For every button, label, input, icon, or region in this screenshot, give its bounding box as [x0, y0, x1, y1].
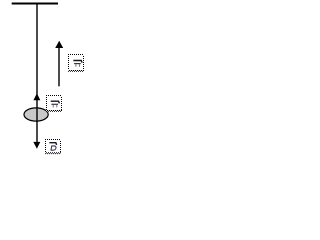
label icon 3 (gravity label placeholder box) — [45, 139, 61, 154]
glyph: te-like letter — [51, 103, 58, 105]
glyph: te-like letter — [74, 63, 81, 65]
label icon 2 (tension label placeholder box) — [46, 95, 62, 111]
glyph: overbar with hook — [49, 143, 56, 145]
glyph: overbar with hook — [51, 101, 60, 103]
ball (mass) ellipse — [24, 108, 48, 121]
tension arrowhead (up, above ball) — [33, 93, 40, 100]
string / vertical line through ball — [36, 4, 38, 143]
axis arrow shaft (right side) — [58, 48, 60, 87]
label icon 1 (axis label placeholder box) — [68, 54, 84, 71]
axis arrowhead — [55, 41, 63, 48]
glyph: overbar with hook — [73, 61, 82, 63]
gravity arrowhead (down, below ball) — [33, 142, 40, 149]
glyph: italic D — [51, 146, 56, 150]
ceiling line — [12, 3, 58, 5]
